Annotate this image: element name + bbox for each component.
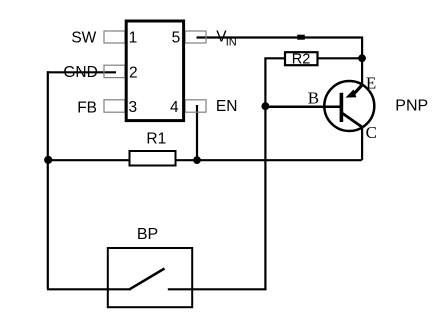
wire: bottom left horizontal to BP switch [47,288,131,290]
junction dot EN / main net [193,156,201,164]
switch blade [130,269,165,290]
transistor Q1 base bar [340,93,344,122]
IC U1 pin 3 pad [104,100,125,112]
svg-text:4: 4 [170,99,179,116]
switch BP box [108,248,192,307]
IC U1 pin 5 pad [185,31,206,43]
junction dot R2 right / emitter rail [358,54,366,62]
svg-text:R2: R2 [292,52,311,68]
svg-text:EN: EN [216,98,238,115]
wire: VIN from pin 5 to right then down to emitter [197,38,363,86]
IC U1 pin 1 pad [104,31,125,43]
svg-text:FB: FB [77,100,97,117]
svg-text:2: 2 [129,64,138,81]
svg-text:5: 5 [172,29,181,46]
resistor R1 body [130,151,176,166]
junction dot left rail / main net [44,156,52,164]
wire: R2 left lead and left mid vertical rail x=265.5 down to switch [168,58,284,289]
wire: base lead from mid rail to transistor base bar [265,106,341,109]
svg-text:3: 3 [129,99,138,116]
transistor Q1 emitter diagonal [352,84,362,95]
wire: collector vertical down to main net [361,128,363,161]
svg-text:E: E [366,73,376,92]
IC U1 body [126,21,183,121]
wire: GND from left vertical to pin 2 [47,71,116,73]
svg-text:B: B [308,88,319,107]
transistor Q1 circle [324,81,374,131]
transistor Q1 emitter arrow (PNP, points to base) [346,89,357,97]
svg-text:SW: SW [71,30,96,47]
svg-text:C: C [366,123,377,142]
tick on VIN wire [297,35,305,40]
svg-text:R1: R1 [146,130,166,147]
IC U1 pin 4 pad [185,100,206,112]
svg-text:PNP: PNP [395,98,428,115]
junction dot base / mid rail [261,102,269,110]
wire: left vertical rail x=48 from GND corner down to bottom [47,71,49,289]
svg-text:1: 1 [129,29,138,46]
resistor R2 body [285,52,318,65]
transistor Q1 collector diagonal [343,113,364,128]
wire: R2 right lead to emitter rail [319,57,363,59]
wire: EN pin 4 vertical down to main net [196,105,198,160]
svg-text:BP: BP [137,226,158,243]
wire: main horizontal net y=159 from left rail to collector corner [47,159,362,161]
IC U1 pin 2 pad [104,65,125,77]
